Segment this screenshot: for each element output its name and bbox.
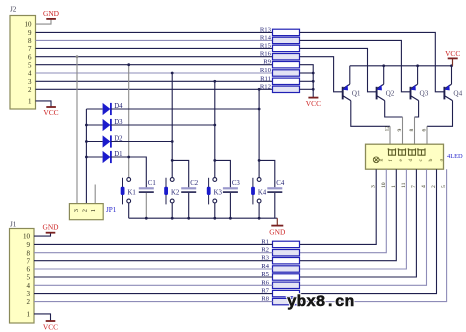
transistor Q2	[377, 66, 395, 101]
svg-text:6: 6	[422, 129, 428, 132]
capacitor C1	[139, 180, 156, 218]
svg-text:10: 10	[381, 182, 387, 188]
wire J1 row R2	[34, 252, 273, 254]
resistor R15	[260, 42, 300, 51]
LED top pin 6 number	[422, 129, 428, 132]
svg-text:7: 7	[411, 185, 417, 188]
wire J1 row R4	[34, 268, 273, 270]
resistor R9	[263, 59, 299, 68]
svg-text:8: 8	[27, 249, 31, 257]
svg-text:4LED: 4LED	[447, 153, 463, 160]
svg-text:f: f	[387, 160, 394, 162]
svg-text:3: 3	[371, 185, 377, 188]
svg-text:VCC: VCC	[43, 108, 58, 117]
LED bottom pin 1 number	[391, 185, 397, 188]
wire Q3 collector to LED	[415, 101, 419, 145]
wire LED pin to R1	[300, 169, 377, 244]
LED top pin 8 number	[409, 129, 415, 132]
wire row to K4 column	[258, 88, 261, 178]
resistor R10	[260, 67, 300, 76]
svg-text:R13: R13	[260, 26, 272, 33]
wire emitter VCC rail	[350, 64, 453, 67]
wire Q4 collector to LED	[427, 101, 453, 145]
wire R15 to Q2 base	[300, 48, 377, 91]
svg-text:2: 2	[81, 209, 88, 212]
svg-text:GND: GND	[43, 9, 60, 18]
svg-text:Q2: Q2	[386, 89, 395, 97]
svg-text:1: 1	[90, 209, 97, 212]
transistor Q1	[343, 66, 361, 101]
svg-text:4: 4	[27, 282, 31, 290]
LED bottom pin 7 number	[411, 185, 417, 188]
display digits 8888	[388, 148, 426, 155]
wire J2 row R10	[36, 72, 273, 74]
diode D1	[86, 151, 146, 188]
connector J2 pin 4 number	[28, 70, 32, 78]
wire J1 row R7	[34, 293, 273, 295]
connector J2 pin 7 number	[28, 45, 32, 53]
connector J2 body	[10, 6, 36, 110]
wire Q1 collector to LED	[351, 101, 390, 145]
connector JP1 pin1 stub	[94, 185, 96, 204]
power VCC at transistors	[445, 49, 460, 66]
power VCC at pullups	[306, 98, 321, 108]
wire row to K2 column	[171, 72, 174, 178]
capacitor C4	[267, 180, 285, 218]
pushbutton K4	[251, 178, 267, 219]
resistor R3	[261, 255, 299, 264]
diode D2	[86, 135, 173, 147]
pushbutton K1	[121, 178, 136, 219]
connector J1 pin 10 number	[23, 233, 31, 241]
resistor R2	[261, 247, 299, 256]
svg-text:g: g	[378, 159, 384, 162]
resistor R8	[261, 296, 299, 305]
connector J1 pin 3 number	[27, 290, 31, 298]
wire LED pin to R2	[300, 169, 387, 253]
resistor R16	[260, 51, 300, 60]
svg-text:3: 3	[27, 290, 31, 298]
svg-text:JP1: JP1	[106, 206, 117, 214]
connector J2 pin 3 number	[28, 78, 32, 86]
wire LED pin to R7	[300, 169, 437, 293]
connector J1 pin 7 number	[27, 257, 31, 265]
svg-text:10: 10	[25, 21, 33, 29]
wire R9-R12 pullup rail	[300, 65, 315, 98]
svg-text:6: 6	[28, 53, 32, 61]
svg-text:12: 12	[385, 126, 391, 132]
svg-text:3: 3	[73, 209, 80, 212]
svg-text:R10: R10	[260, 67, 272, 74]
resistor R1	[261, 238, 299, 247]
ground GND at J2 pin10	[43, 9, 60, 19]
LED top pin 12 number	[385, 126, 391, 132]
wire R16 row to JP1 pin3	[76, 55, 79, 203]
connector J1 pin 2 number	[27, 298, 31, 306]
svg-text:9: 9	[27, 241, 31, 249]
svg-text:4: 4	[421, 185, 427, 188]
wire LED pin to R3	[300, 169, 397, 261]
svg-text:9: 9	[28, 29, 32, 37]
wire J1 row R1	[34, 243, 273, 245]
svg-text:K3: K3	[214, 189, 223, 196]
wire LED pin to R4	[300, 169, 407, 269]
svg-text:VCC: VCC	[445, 49, 460, 58]
wire J2 row R11	[36, 80, 273, 82]
resistor R12	[260, 83, 300, 92]
connector J2 pin 10 number	[25, 21, 33, 29]
power VCC at J1 pin1	[43, 321, 58, 332]
pushbutton K2	[164, 178, 180, 219]
resistor R5	[261, 271, 299, 280]
svg-text:R14: R14	[260, 34, 272, 41]
ground GND at button rail	[269, 218, 286, 236]
connector J1 body	[10, 221, 35, 324]
resistor R13	[260, 26, 300, 35]
svg-text:6: 6	[27, 266, 31, 274]
wire J1 pin10 to GND stub	[34, 233, 51, 236]
power VCC at J2 pin1	[43, 107, 58, 117]
svg-text:Q4: Q4	[453, 89, 462, 97]
connector J1 pin 8 number	[27, 249, 31, 257]
capacitor C2	[181, 180, 199, 218]
connector J2 pin 8 number	[28, 37, 32, 45]
svg-text:5: 5	[441, 185, 447, 188]
transistor Q4	[444, 66, 462, 101]
wire K3 to C3 branch	[213, 159, 230, 187]
resistor R14	[260, 34, 300, 43]
svg-text:2: 2	[28, 86, 32, 94]
svg-text:3: 3	[28, 78, 32, 86]
wire row to K1 column	[127, 63, 130, 177]
wire R13 to Q4 base	[300, 32, 445, 91]
svg-text:11: 11	[401, 182, 407, 188]
wire diode anode ladder to JP1 pin2	[85, 109, 88, 204]
ground GND at J1 pin10	[42, 223, 59, 233]
diode D3	[86, 119, 216, 131]
svg-text:C1: C1	[148, 180, 156, 187]
svg-text:10: 10	[23, 233, 31, 241]
svg-text:D3: D3	[114, 119, 123, 126]
svg-text:R15: R15	[260, 42, 272, 49]
svg-text:K2: K2	[171, 189, 180, 196]
svg-text:7: 7	[27, 257, 31, 265]
svg-text:2: 2	[27, 298, 31, 306]
resistor R4	[261, 263, 299, 272]
svg-text:K4: K4	[258, 189, 267, 196]
svg-text:2: 2	[431, 185, 437, 188]
svg-text:8: 8	[28, 37, 32, 45]
transistor Q3	[411, 66, 429, 101]
svg-text:K1: K1	[128, 189, 136, 196]
svg-text:D2: D2	[114, 136, 123, 143]
wire K4 to C4 branch	[258, 159, 275, 187]
wire J1 pin1 to VCC stub	[34, 314, 51, 321]
svg-text:9: 9	[397, 129, 403, 132]
connector J2 pin 6 number	[28, 53, 32, 61]
wire R16 to Q1 base	[300, 57, 343, 92]
svg-text:Q3: Q3	[420, 89, 429, 97]
svg-text:b: b	[428, 159, 434, 162]
svg-text:R16: R16	[260, 51, 272, 58]
connector J2 pin 1 number	[28, 98, 32, 106]
svg-text:J2: J2	[10, 6, 17, 14]
svg-text:VCC: VCC	[306, 99, 321, 108]
LED bottom pin 11 number	[401, 182, 407, 188]
wire J2 row R16	[36, 56, 273, 58]
watermark ybx8.cn	[287, 293, 354, 311]
LED bottom pin 10 number	[381, 182, 387, 188]
svg-text:J1: J1	[10, 221, 17, 229]
connector J2 pin 9 number	[28, 29, 32, 37]
resistor R6	[261, 279, 299, 288]
svg-text:GND: GND	[269, 227, 286, 236]
display 4LED body	[366, 144, 464, 169]
capacitor C3	[223, 180, 241, 218]
wire Q2 collector to LED	[385, 101, 403, 145]
wire J2 row R12	[36, 88, 273, 90]
svg-text:D4: D4	[114, 103, 123, 110]
svg-text:GND: GND	[42, 223, 59, 232]
LED bottom pin 5 number	[441, 185, 447, 188]
resistor R7	[261, 288, 299, 297]
svg-text:R9: R9	[263, 59, 271, 66]
wire row to K3 column	[213, 80, 216, 178]
display segment pin names	[378, 159, 444, 162]
svg-text:1: 1	[391, 185, 397, 188]
svg-text:4: 4	[28, 70, 32, 78]
svg-text:C4: C4	[276, 180, 285, 187]
LED bottom pin 3 number	[371, 185, 377, 188]
svg-text:VCC: VCC	[43, 323, 58, 332]
svg-text:ybx8.cn: ybx8.cn	[287, 293, 354, 311]
wire J1 row R6	[34, 284, 273, 286]
connector J1 pin 1 number	[27, 311, 31, 319]
svg-text:1: 1	[28, 98, 32, 106]
svg-text:D1: D1	[114, 151, 122, 158]
wire J1 row R5	[34, 276, 273, 278]
svg-text:7: 7	[28, 45, 32, 53]
wire J2 pin10 to GND stub	[36, 19, 52, 24]
wire K2 to C2 branch	[171, 159, 189, 187]
LED bottom pin 4 number	[421, 185, 427, 188]
svg-text:C3: C3	[232, 180, 241, 187]
wire J2 row R15	[36, 47, 273, 49]
wire button ground rail	[129, 217, 278, 220]
wire LED pin to R8	[300, 169, 447, 301]
pushbutton K3	[207, 178, 223, 219]
connector J1 pin 5 number	[27, 274, 31, 282]
display polarity mark	[373, 157, 379, 163]
wire LED pin to R5	[300, 169, 417, 277]
svg-text:R12: R12	[260, 83, 271, 90]
connector JP1 body	[69, 204, 116, 220]
wire LED pin to R6	[300, 169, 427, 285]
connector J1 pin 6 number	[27, 266, 31, 274]
svg-text:Q1: Q1	[352, 89, 361, 97]
LED top pin 9 number	[397, 129, 403, 132]
wire J1 row R3	[34, 260, 273, 262]
wire J2 row R13	[36, 31, 273, 33]
connector J1 pin 4 number	[27, 282, 31, 290]
resistor R11	[260, 75, 299, 84]
connector J1 pin 9 number	[27, 241, 31, 249]
wire J1 row R8	[34, 301, 273, 303]
svg-text:5: 5	[28, 61, 32, 69]
wire J2 row R14	[36, 39, 273, 41]
svg-text:d: d	[408, 159, 414, 162]
diode D4	[86, 103, 260, 115]
wire J2 pin1 to VCC stub	[36, 101, 52, 107]
connector J2 pin 5 number	[28, 61, 32, 69]
svg-text:C2: C2	[190, 180, 199, 187]
connector J2 pin 2 number	[28, 86, 32, 94]
wire J2 row R9	[36, 64, 273, 66]
svg-text:8: 8	[409, 129, 415, 132]
svg-text:5: 5	[27, 274, 31, 282]
wire R14 to Q3 base	[300, 40, 411, 91]
svg-text:1: 1	[27, 311, 31, 319]
svg-text:R11: R11	[260, 75, 271, 82]
LED bottom pin 2 number	[431, 185, 437, 188]
